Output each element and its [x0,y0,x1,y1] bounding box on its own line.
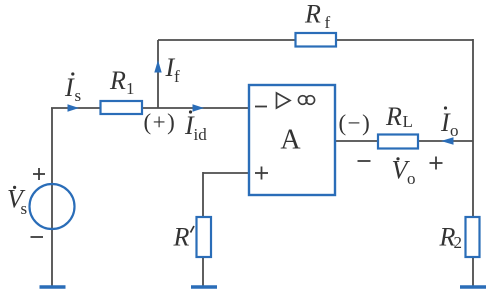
op-amp inverting input minus marker [255,106,267,108]
svg-text:f: f [325,13,331,32]
svg-text:f: f [174,67,180,86]
ground (R-prime branch) [191,285,217,289]
svg-text:R: R [385,102,402,131]
wire right vertical [472,39,474,286]
svg-text:R: R [304,0,321,29]
wire R-prime riser [202,172,204,286]
resistor R1 [101,101,143,114]
op-amp A box [249,85,335,195]
svg-text:id: id [194,125,208,144]
arrow If [154,60,161,73]
svg-text:o: o [407,169,416,188]
svg-text:1: 1 [126,79,135,98]
wire main horizontal input [51,107,249,109]
wire feedback riser [157,40,159,108]
svg-text:R: R [109,66,126,95]
arrow Io [441,137,454,144]
plus sign of source [33,173,45,175]
svg-text:R: R [173,223,190,252]
arrow Iid [193,104,205,111]
svg-text:o: o [450,121,459,140]
ground (source branch) [40,285,66,289]
wire output horizontal [335,140,473,142]
minus sign of source [31,236,44,238]
resistor R2 [466,217,480,257]
plus sign of Vo [430,162,443,164]
svg-text:I: I [64,73,75,102]
minus sign of Vo [358,160,371,162]
resistor RL [378,135,418,149]
svg-text:(+): (+) [144,110,177,135]
wire non-inverting input horizontal [203,172,249,174]
wire left vertical (source branch) [51,108,53,286]
svg-text:s: s [75,86,82,105]
op-amp gain triangle [277,93,291,108]
op-amp non-inverting input plus marker [255,172,268,174]
arrow Is [68,104,80,111]
resistor Rf [296,33,337,47]
ground (R2 branch) [460,285,486,289]
wire top feedback horizontal [158,39,473,41]
op-amp infinity symbol [298,96,307,105]
svg-text:A: A [280,125,301,156]
resistor R-prime [197,217,212,257]
svg-text:s: s [21,199,28,218]
voltage source Vs circle [30,184,75,229]
svg-text:L: L [403,112,413,131]
svg-text:(−): (−) [339,111,372,136]
svg-text:2: 2 [454,233,463,252]
